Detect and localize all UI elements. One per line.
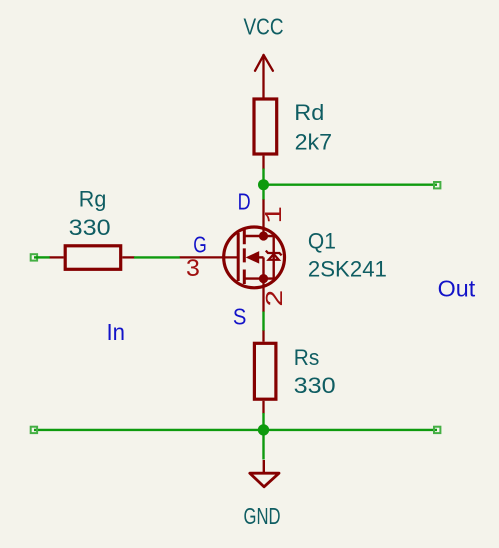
junction node drain — [258, 179, 269, 190]
svg-text:330: 330 — [294, 373, 336, 398]
svg-text:2k7: 2k7 — [295, 130, 333, 155]
resistor Rd — [254, 99, 277, 154]
transistor Q1 drain connect — [244, 235, 263, 237]
svg-text:Q1: Q1 — [308, 228, 336, 253]
transistor Q1 bulk connect — [258, 256, 264, 258]
transistor Q1 body diode zener bar — [266, 251, 282, 256]
resistor Rs bottom lead — [262, 401, 264, 414]
wire Rs to rail — [262, 413, 264, 430]
transistor Q1 body diode branch — [264, 236, 274, 279]
wire ground rail — [34, 429, 437, 431]
transistor Q1 drain dot — [259, 231, 268, 240]
resistor Rd bottom lead — [262, 156, 264, 170]
transistor Q1 source dot — [259, 274, 268, 283]
svg-text:1: 1 — [262, 206, 289, 223]
svg-text:2: 2 — [263, 289, 290, 307]
transistor Q1 source connect — [244, 277, 263, 279]
unconnected end square top right — [434, 182, 440, 188]
unconnected end square input — [31, 254, 37, 260]
ground symbol GND — [263, 460, 265, 473]
unconnected end square rail left — [31, 427, 37, 433]
svg-text:Out: Out — [438, 276, 476, 302]
svg-text:Rg: Rg — [79, 187, 107, 212]
svg-text:D: D — [238, 189, 251, 215]
transistor Q1 bulk arrow — [247, 252, 259, 263]
svg-text:Rd: Rd — [294, 100, 324, 125]
wire Rd to junction — [262, 169, 264, 185]
transistor Q1 gate plate — [237, 233, 240, 281]
svg-text:Rs: Rs — [294, 345, 320, 370]
transistor Q1 body circle — [224, 227, 285, 288]
wire input stub — [34, 256, 50, 258]
wire source to Rs — [262, 312, 264, 332]
wire Rg to gate — [134, 256, 180, 258]
svg-text:G: G — [193, 232, 207, 258]
wire junction to GND — [262, 430, 264, 460]
transistor Q1 source column — [262, 257, 264, 278]
transistor Q1 drain pin (pin 1) — [262, 200, 264, 237]
transistor Q1 source pin (pin 2) — [262, 279, 264, 312]
power symbol VCC — [255, 55, 273, 98]
wire junction to drain pin — [262, 185, 264, 200]
unconnected end square rail right — [434, 427, 440, 433]
resistor Rs top lead — [262, 331, 264, 342]
junction node ground rail — [258, 424, 269, 435]
svg-text:VCC: VCC — [244, 14, 284, 40]
svg-text:3: 3 — [185, 255, 200, 284]
svg-text:S: S — [233, 304, 247, 330]
resistor Rg left lead — [50, 256, 64, 258]
transistor Q1 channel segments — [243, 229, 246, 285]
resistor Rs — [254, 343, 276, 399]
resistor Rg — [65, 246, 121, 269]
svg-text:GND: GND — [244, 503, 281, 529]
svg-text:In: In — [107, 319, 126, 345]
svg-text:2SK241: 2SK241 — [308, 257, 387, 282]
wire junction to Out port — [264, 183, 438, 185]
svg-text:330: 330 — [69, 215, 111, 240]
transistor Q1 body diode triangle — [269, 254, 279, 260]
resistor Rg right lead — [122, 256, 134, 258]
transistor Q1 gate pin (pin 3) — [179, 256, 238, 258]
